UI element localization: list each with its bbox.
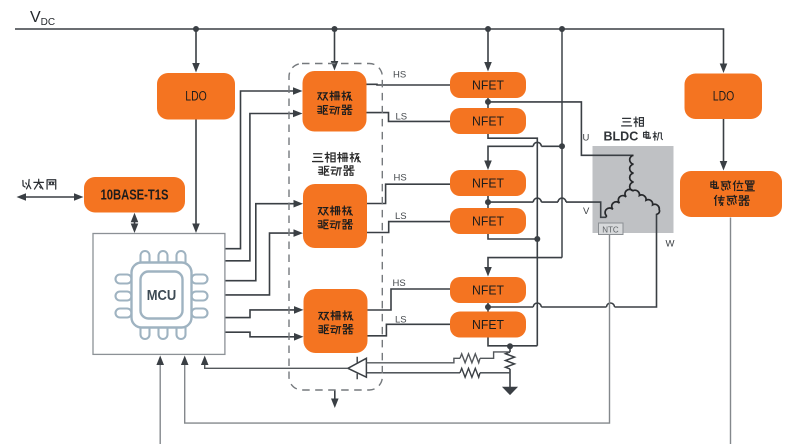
- arrowhead into driver3 LS in: [294, 333, 304, 341]
- motor coil U: [630, 155, 634, 191]
- LDO U5 box: [685, 74, 763, 120]
- resistor R2: [460, 368, 480, 377]
- wire phase W to motor: [488, 214, 657, 307]
- NFET Q6 box: [450, 312, 526, 338]
- junction node V: [485, 199, 491, 205]
- wire bus drop to NFET Q1: [487, 29, 489, 68]
- svg-text:NFET: NFET: [472, 317, 504, 332]
- arrowhead into MCU bottom 3: [201, 356, 209, 366]
- junction bus-driver1: [332, 26, 338, 32]
- MCU U3 box: [93, 234, 225, 355]
- hop phase V over x562: [558, 198, 566, 202]
- resistor R-shunt: [506, 352, 515, 369]
- hop phase W over NTC line: [607, 303, 615, 307]
- svg-text:V: V: [583, 206, 590, 217]
- NFET Q5 box: [450, 277, 526, 303]
- junction shunt top: [507, 343, 513, 349]
- ground arrow below dashed driver block: [334, 391, 336, 403]
- svg-text:NFET: NFET: [472, 283, 504, 298]
- svg-text:LS: LS: [396, 112, 408, 123]
- label HS/LS: [393, 70, 408, 326]
- wire phase V to motor: [488, 202, 606, 217]
- NTC thermistor box: [599, 223, 624, 235]
- wire shunt top lead: [509, 346, 511, 352]
- wire driver1 HS output to NFET Q1: [367, 83, 451, 86]
- motor coil V: [605, 189, 633, 217]
- MCU chip icon: [116, 251, 208, 339]
- junction bus-feed column: [559, 26, 565, 32]
- junction node U: [485, 99, 491, 105]
- amp input ticks: [356, 357, 358, 379]
- arrowhead into 10BASE-T1S bottom: [131, 213, 139, 223]
- arrowhead into LDO2 top: [720, 64, 728, 74]
- svg-text:LDO: LDO: [713, 89, 735, 104]
- hop phase W over x537: [533, 303, 541, 307]
- arrowhead driver block ground: [331, 399, 339, 409]
- svg-text:LDO: LDO: [185, 89, 207, 104]
- NFET Q2 box: [450, 108, 526, 134]
- wire Q4 source to low-side rail: [488, 234, 537, 239]
- gate driver U8 box: [303, 184, 367, 248]
- arrowhead into Q1 top: [484, 62, 492, 72]
- arrowhead into MCU bottom 2: [181, 356, 189, 366]
- arrowhead into Q3 top: [484, 161, 492, 171]
- svg-text:W: W: [666, 239, 675, 250]
- arrowhead into driver1 HS in: [293, 87, 303, 95]
- wire amp minus input to R2: [366, 372, 460, 374]
- wire driver2 LS output to NFET Q4: [367, 222, 450, 233]
- arrowhead 10BASE into MCU top: [131, 224, 139, 234]
- wire Q1 source to Q2 drain, node U: [487, 98, 489, 108]
- svg-text:HS: HS: [393, 278, 406, 289]
- LDO U4 box: [157, 73, 235, 120]
- junction feed2: [559, 143, 565, 149]
- wire MCU out 6 to driver3 LS input: [225, 332, 295, 337]
- label ethernet 以太网: [23, 179, 56, 189]
- svg-text:U: U: [583, 133, 590, 144]
- arrowhead into driver1 top: [331, 61, 339, 71]
- wire R2 to shunt bottom: [480, 372, 509, 374]
- svg-text:10BASE-T1S: 10BASE-T1S: [101, 187, 169, 204]
- hop phase V over x537: [533, 198, 541, 202]
- resistor R1: [460, 354, 480, 363]
- svg-text:NFET: NFET: [472, 114, 504, 129]
- label driver3 双栅极/驱动器: [319, 313, 329, 320]
- wire driver3 HS output to NFET Q5: [368, 289, 451, 310]
- wire phase3 feed to Q5: [488, 258, 562, 273]
- junction bus-Q1: [485, 26, 491, 32]
- arrowhead into driver2 LS in: [294, 229, 304, 237]
- wire LDO2 to sensor: [723, 119, 725, 167]
- svg-text:HS: HS: [393, 70, 406, 81]
- label 三相栅极/驱动器 (dashed block): [313, 152, 361, 175]
- arrowhead into LDO1: [192, 63, 200, 73]
- gate driver U9 box: [304, 289, 368, 353]
- junction node W: [485, 304, 491, 310]
- svg-text:NFET: NFET: [472, 176, 504, 191]
- arrowhead into driver1 LS in: [293, 110, 303, 118]
- label 电感位置/传感器 (sensor): [711, 181, 718, 189]
- wire Q2 source to low-side rail: [488, 134, 537, 346]
- wire phase U to motor: [488, 102, 634, 155]
- inductive position sensor U10 box: [680, 171, 782, 217]
- svg-text:HS: HS: [394, 173, 407, 184]
- arrowhead into sensor top: [720, 161, 728, 171]
- NFET Q1 box: [450, 72, 526, 98]
- motor coil W: [633, 190, 660, 214]
- label 三相 BLDC 电机 (motor): [622, 117, 663, 140]
- wire driver1 LS output to NFET Q2: [367, 113, 451, 122]
- arrowhead into driver2 HS in: [294, 200, 304, 208]
- gate driver U7 box: [303, 71, 367, 132]
- arrowhead LDO1 into MCU: [192, 224, 200, 234]
- wire sensor output down: [730, 218, 732, 444]
- junction bus-LDO1: [193, 26, 199, 32]
- NFET Q4 box: [450, 208, 526, 234]
- svg-text:NFET: NFET: [472, 214, 504, 229]
- label driver1 双栅极/驱动器: [318, 93, 328, 100]
- wire amp output to MCU: [205, 361, 348, 368]
- wire NTC feedback to MCU: [185, 235, 610, 424]
- wire R1 to shunt top: [480, 352, 509, 358]
- wire bus drop to gate driver 1: [334, 29, 336, 67]
- svg-text:LS: LS: [395, 315, 407, 326]
- arrowhead into Q5 top: [484, 267, 492, 277]
- motor body M1 gray box: [593, 146, 674, 233]
- wire MCU bottom stub down to edge: [159, 361, 161, 444]
- wire bus drop phase feed column: [561, 29, 563, 258]
- hop phase2 feed over x537: [533, 142, 541, 146]
- wire driver2 HS output to NFET Q3: [367, 184, 450, 203]
- wire phase2 feed from column to Q3: [488, 146, 562, 166]
- arrowhead into MCU bottom 1: [156, 356, 164, 366]
- svg-text:LS: LS: [395, 211, 407, 222]
- wire Q5 source to Q6 drain, node W: [487, 303, 489, 312]
- svg-text:BLDC: BLDC: [604, 129, 639, 143]
- wire shunt to ground: [509, 369, 511, 388]
- dashed three-phase gate driver block: [289, 64, 382, 391]
- wire ethernet double arrow: [20, 196, 79, 198]
- wire VDC bus: [15, 29, 724, 69]
- arrowhead ethernet right: [74, 193, 84, 201]
- arrowhead into driver3 HS in: [294, 306, 304, 314]
- wire Q3 source to Q4 drain, node V: [487, 196, 489, 208]
- ground symbol shunt: [504, 388, 516, 395]
- wire MCU out 1 to driver1 HS input: [225, 91, 294, 249]
- wire amp plus input to R1: [366, 358, 460, 363]
- 10BASE-T1S U6 box: [84, 177, 185, 213]
- label driver2 双栅极/驱动器: [318, 208, 328, 215]
- wire Q6 source to shunt node: [488, 338, 537, 346]
- wire MCU out 4 to driver2 LS input: [225, 233, 295, 295]
- wire MCU out 3 to driver2 HS input: [225, 204, 295, 281]
- wire 10BASE-T1S to MCU double arrow: [134, 217, 136, 230]
- arrowhead ethernet left: [17, 193, 27, 201]
- wire MCU out 2 to driver1 LS input: [225, 114, 294, 261]
- amplifier U2 triangle: [348, 358, 367, 377]
- junction low-side rail: [534, 236, 540, 242]
- NFET Q3 box: [450, 170, 526, 196]
- svg-text:NTC: NTC: [602, 225, 619, 234]
- wire driver3 LS output to NFET Q6: [368, 324, 451, 336]
- wire LDO1 to MCU: [195, 120, 197, 230]
- label U V W: [583, 133, 675, 250]
- svg-text:MCU: MCU: [147, 288, 177, 304]
- svg-text:NFET: NFET: [472, 78, 504, 93]
- wire bus drop to LDO1: [195, 29, 197, 69]
- wire MCU out 5 to driver3 HS input: [225, 310, 295, 318]
